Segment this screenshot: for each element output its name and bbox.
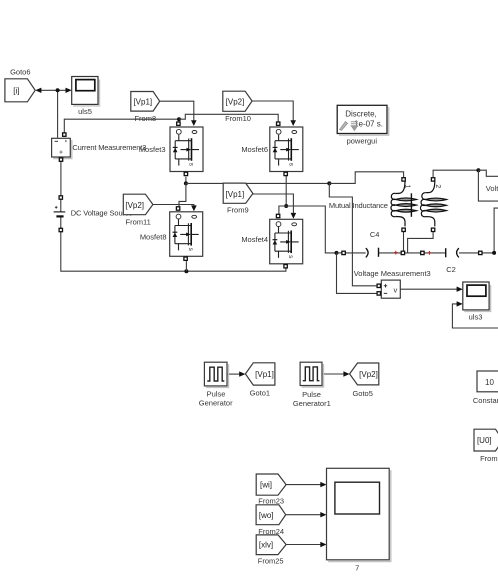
goto tag Goto5 <box>350 363 379 398</box>
port: winding1 top <box>402 178 405 181</box>
wire: signal i junction to Goto6/uls5/CM <box>35 88 71 138</box>
svg-text:Mosfet3: Mosfet3 <box>139 145 166 154</box>
port: winding2 top <box>431 178 434 181</box>
svg-text:[U0]: [U0] <box>477 436 492 445</box>
svg-text:Generator: Generator <box>199 398 233 407</box>
wire: Mosfet6 source down to leg-B node <box>285 176 287 207</box>
svg-text:Mosfet6: Mosfet6 <box>241 145 268 154</box>
wire: From24 to scope input 2 <box>286 514 322 516</box>
wire: bottom rail from DC source to Mosfet4 source <box>61 232 286 271</box>
wire: winding 1 bottom to C4 right port <box>403 232 405 252</box>
svg-text:Goto5: Goto5 <box>352 389 372 398</box>
svg-text:Generator1: Generator1 <box>293 399 331 408</box>
wire: node to off-canvas voltage measurement plus <box>478 170 498 176</box>
svg-text:powergui: powergui <box>347 137 378 146</box>
mosfet Q Mosfet6 <box>241 122 302 176</box>
svg-text:Constant5: Constant5 <box>473 396 498 405</box>
from tag From24 <box>256 505 286 536</box>
svg-text:[i]: [i] <box>13 86 19 95</box>
from tag From23 <box>256 474 286 506</box>
svg-text:From10: From10 <box>225 114 251 123</box>
from tag From9 <box>223 183 253 215</box>
node: top rail junction at Mosfet3 drain <box>177 117 181 121</box>
svg-text:uls5: uls5 <box>78 107 92 116</box>
voltage measurement3 block <box>354 269 431 298</box>
svg-text:C2: C2 <box>446 265 456 274</box>
capacitor C2 <box>421 248 482 274</box>
port: winding1 bottom <box>402 228 405 231</box>
svg-text:[Vp2]: [Vp2] <box>226 97 245 106</box>
svg-text:From11: From11 <box>126 217 151 226</box>
wire: C4 junction down to Voltage Measurement3 minus <box>337 253 378 294</box>
goto tag Goto1 <box>245 363 275 398</box>
svg-text:From9: From9 <box>227 206 249 215</box>
svg-text:From26: From26 <box>480 454 498 463</box>
svg-text:From25: From25 <box>258 557 284 566</box>
port: winding2 bottom <box>431 228 434 231</box>
svg-text:1e-07 s.: 1e-07 s. <box>354 119 383 128</box>
svg-text:[Vp1]: [Vp1] <box>255 370 274 379</box>
winding 1 coil <box>391 181 417 226</box>
wire: Voltage Measurement3 output to uls3 <box>400 288 457 290</box>
powergui block <box>337 105 389 145</box>
svg-text:1: 1 <box>404 185 411 189</box>
svg-text:[wo]: [wo] <box>259 511 274 520</box>
wire: winding 2 top to right-edge node <box>433 170 478 177</box>
wire: From25 to scope input 3 <box>286 544 321 546</box>
from tag From8 <box>131 92 160 124</box>
svg-text:From8: From8 <box>134 114 156 123</box>
svg-text:[Vp2]: [Vp2] <box>359 370 378 379</box>
svg-text:uls3: uls3 <box>469 313 483 322</box>
wire: common node between C4 and C2 <box>405 252 421 254</box>
svg-text:2: 2 <box>434 184 441 188</box>
capacitor C4 <box>342 230 405 258</box>
svg-text:[Vp1]: [Vp1] <box>226 190 245 199</box>
current measurement block <box>52 133 147 161</box>
svg-text:Mosfet4: Mosfet4 <box>241 235 268 244</box>
wire: From10 output to Mosfet6 gate <box>252 101 293 121</box>
wire: drain rail from Mosfet3 to Mosfet6 <box>179 114 278 122</box>
svg-text:Voltage Measurement3: Voltage Measurement3 <box>354 269 431 278</box>
wire: mid node down to Mosfet8 drain <box>179 183 186 207</box>
wire: junction to C4 left port <box>337 252 342 254</box>
goto tag Goto6 <box>5 68 35 102</box>
wire: leg-A node down to Voltage Measurement3 plus <box>329 183 377 285</box>
node: leg-B junction <box>284 204 288 208</box>
DC voltage source <box>54 196 133 232</box>
svg-text:v: v <box>394 285 398 294</box>
pulse generator1 block <box>293 362 331 408</box>
wire: From11 output to Mosfet8 gate <box>153 204 194 207</box>
wire: feedback loop into uls3 second input <box>452 304 498 328</box>
wire: Current Measurement minus terminal to top rail <box>64 119 179 136</box>
svg-text:10: 10 <box>485 378 494 387</box>
wire: mid rail to leg-A node <box>186 182 329 184</box>
wire: C2 right port to off-canvas <box>482 208 498 253</box>
constant block 10 <box>473 371 498 405</box>
svg-text:Pulse: Pulse <box>207 389 226 398</box>
wire: leg-A node to winding 1 top <box>329 172 403 184</box>
svg-text:7: 7 <box>355 564 359 573</box>
wire: node down and off-canvas <box>478 170 498 201</box>
wire: From8 output to Mosfet3 gate <box>160 101 194 120</box>
mosfet Q Mosfet3 <box>139 122 203 176</box>
wire: From23 to scope input 1 <box>286 484 321 486</box>
transformer core line <box>410 193 412 217</box>
scope uls5 <box>72 77 100 116</box>
scope uls3 <box>463 282 491 322</box>
wire: Mosfet3 source to mid rail <box>185 177 187 184</box>
svg-text:Mosfet8: Mosfet8 <box>140 232 167 241</box>
wire: leg-B node to Mosfet4 drain <box>279 206 286 214</box>
wire: Pulse Generator1 to Goto5 <box>322 373 344 375</box>
pulse generator block <box>199 362 233 407</box>
node: bottom rail junction at Mosfet8 source <box>184 269 188 273</box>
svg-text:Mutual Inductance: Mutual Inductance <box>329 201 388 210</box>
svg-text:[Vp2]: [Vp2] <box>125 201 144 210</box>
node: leg-A junction <box>327 181 331 185</box>
node: C4 left junction <box>335 251 339 255</box>
svg-text:[xlv]: [xlv] <box>259 541 273 550</box>
svg-text:Goto1: Goto1 <box>250 388 270 397</box>
svg-text:[Vp1]: [Vp1] <box>133 98 152 107</box>
svg-text:C4: C4 <box>370 230 380 239</box>
from tag From10 <box>223 91 252 123</box>
svg-text:Voltage: Voltage <box>486 184 498 193</box>
scope block 7 <box>327 468 391 572</box>
wire: Pulse Generator to Goto1 <box>227 373 240 375</box>
svg-text:Pulse: Pulse <box>302 390 321 399</box>
svg-text:Current Measurement3: Current Measurement3 <box>72 143 146 152</box>
from tag From11 <box>123 194 153 226</box>
mutual inductance transformer <box>329 178 447 232</box>
wire: From9 output to Mosfet4 gate <box>253 194 294 213</box>
wire: leg-B node right to C4 junction <box>286 206 336 253</box>
node: mid rail junction at Mosfet3 source <box>184 181 188 185</box>
svg-text:Goto6: Goto6 <box>10 68 30 77</box>
mosfet Q Mosfet4 <box>241 214 302 268</box>
from tag U0 <box>474 429 498 463</box>
winding 2 coil <box>420 181 446 226</box>
wire: winding 2 bottom jog to common node <box>408 232 434 253</box>
svg-text:[wi]: [wi] <box>260 481 272 490</box>
from tag From25 <box>256 535 286 566</box>
svg-text:Discrete,: Discrete, <box>345 109 377 118</box>
node: C2 right junction <box>492 251 496 255</box>
wire: Current Measurement plus to DC source <box>60 161 62 195</box>
mosfet Q Mosfet8 <box>140 207 203 261</box>
node: right-edge junction <box>476 168 480 172</box>
wire: Mosfet8 source stub <box>185 261 187 271</box>
